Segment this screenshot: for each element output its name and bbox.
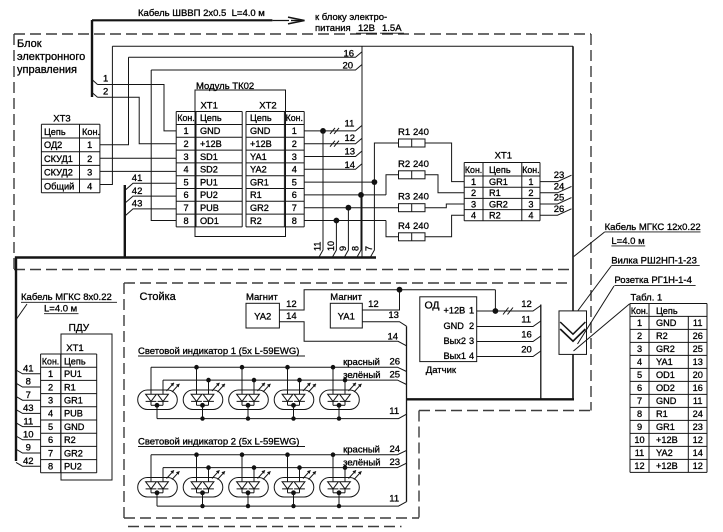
junction: LED 4 green to bus [297, 378, 302, 383]
LED 2 red anode riser [196, 455, 198, 482]
svg-text:8: 8 [26, 377, 31, 388]
R4 left lead [386, 221, 399, 237]
svg-text:4: 4 [87, 181, 92, 191]
LED 2 red anode riser [196, 367, 198, 394]
svg-text:R1: R1 [64, 382, 76, 392]
svg-text:R3: R3 [398, 192, 410, 203]
LED 5 cathode drop [338, 405, 340, 418]
svg-text:8: 8 [637, 409, 642, 419]
svg-text:11: 11 [389, 406, 399, 417]
svg-text:11: 11 [693, 396, 703, 406]
svg-text:10: 10 [634, 435, 644, 445]
LED 1 red anode riser [150, 367, 152, 394]
twisted pair mark on sensor +12V wire [503, 308, 509, 315]
svg-text:+12В: +12В [250, 139, 272, 149]
LED 2 green diode symbol [203, 482, 214, 489]
svg-text:25: 25 [554, 193, 565, 204]
connector table XT3 grid [41, 123, 100, 125]
svg-text:XT3: XT3 [53, 114, 70, 125]
LED 5 emission arrows [349, 470, 362, 479]
svg-text:13: 13 [693, 357, 703, 367]
LED 5 green anode riser [344, 380, 346, 394]
PDU wire 43 from cable bus [16, 410, 41, 414]
svg-text:12: 12 [286, 299, 297, 310]
svg-text:23: 23 [554, 170, 565, 181]
LED 5 green diode symbol [340, 482, 351, 489]
R2 left lead [386, 175, 399, 195]
LED 1 green diode symbol [158, 394, 169, 401]
PDU wire 9 from cable bus [16, 449, 41, 453]
LED 1 green anode riser [162, 380, 164, 394]
svg-text:R2: R2 [250, 216, 262, 226]
sensor cable mini-bundle vertical [540, 305, 542, 400]
svg-text:Световой индикатор 1 (5x L-59E: Световой индикатор 1 (5x L-59EWG) [138, 346, 299, 357]
LED 4 green diode symbol [294, 394, 305, 401]
magnet YA2 box [246, 303, 279, 328]
svg-text:3: 3 [471, 199, 476, 209]
PDU wire 10 from cable bus [16, 436, 41, 440]
svg-text:24: 24 [554, 181, 565, 192]
PDU wire 7 from cable bus [16, 396, 41, 400]
arrow to power supply [273, 20, 290, 22]
svg-text:7: 7 [183, 203, 188, 213]
LED 5 red diode symbol [328, 394, 339, 401]
svg-text:11: 11 [389, 494, 399, 505]
svg-text:R2: R2 [398, 159, 410, 170]
svg-text:GR2: GR2 [250, 203, 269, 213]
svg-text:PU1: PU1 [200, 177, 218, 187]
LED 1 cathode join [151, 404, 163, 406]
svg-text:3: 3 [183, 152, 188, 162]
svg-text:Кабель МГКС 8x0.22: Кабель МГКС 8x0.22 [21, 292, 112, 303]
svg-text:R2: R2 [489, 211, 501, 221]
svg-text:Кон.: Кон. [522, 165, 539, 175]
LED 3 red anode riser [241, 367, 243, 394]
svg-text:Вых1: Вых1 [444, 351, 466, 361]
LED 4 green diode symbol [294, 482, 305, 489]
svg-text:6: 6 [183, 190, 188, 200]
junction: LED 2 green to bus [206, 465, 211, 470]
LED 3 cathode join [242, 492, 254, 494]
wire from XT2 pin 5 GR1 to R1 [304, 181, 374, 183]
sensor wire 12 to cable bundle [477, 306, 541, 312]
plug RSh2NP-1-23 chevron [560, 322, 585, 334]
svg-text:GR1: GR1 [250, 177, 269, 187]
LED 2 green anode riser [208, 468, 210, 482]
LED green bus wire 23 [163, 463, 407, 467]
svg-text:8: 8 [183, 216, 188, 226]
dashed boundary: electronic control unit box top edge [14, 33, 591, 35]
LED 3 cathode join [242, 404, 254, 406]
LED 2 emission arrows [212, 383, 225, 392]
svg-text:8: 8 [48, 462, 53, 472]
svg-text:R4: R4 [398, 221, 410, 232]
svg-text:23: 23 [693, 422, 703, 432]
LED 4 cathode join [288, 404, 300, 406]
svg-text:Цепь: Цепь [656, 306, 678, 316]
svg-text:14: 14 [388, 331, 399, 342]
wire 12 from YA1 pin 1 [362, 290, 399, 310]
svg-text:12: 12 [345, 133, 356, 144]
svg-text:3: 3 [469, 336, 474, 346]
svg-text:Вилка РШ2НП-1-23: Вилка РШ2НП-1-23 [611, 255, 697, 266]
svg-text:PU2: PU2 [200, 190, 218, 200]
svg-text:Кон.: Кон. [286, 113, 303, 123]
svg-text:6: 6 [48, 435, 53, 445]
svg-text:GND: GND [200, 126, 221, 136]
svg-text:YA2: YA2 [656, 448, 673, 458]
svg-text:5: 5 [48, 422, 53, 432]
svg-text:GND: GND [444, 321, 465, 331]
svg-text:Кон.: Кон. [42, 357, 59, 367]
LED 4 red anode riser [287, 455, 289, 482]
LED 2 green anode riser [208, 380, 210, 394]
LED common bus wire 11 [157, 414, 407, 418]
top rail run to cable (net Obschiy) [112, 45, 573, 47]
svg-text:6: 6 [292, 190, 297, 200]
bicolor LED 5 outline [320, 478, 360, 498]
svg-text:XT1: XT1 [200, 100, 217, 111]
svg-text:Общий: Общий [44, 181, 74, 191]
LED 1 emission arrows [167, 383, 180, 392]
LED 1 red anode riser [150, 455, 152, 482]
vertical wire 10 down to PDU cable bus [332, 221, 336, 258]
svg-text:5: 5 [183, 177, 188, 187]
svg-text:16: 16 [693, 383, 703, 393]
rack side cable bundle vertical [406, 326, 408, 502]
svg-text:2: 2 [469, 321, 474, 331]
LED 1 green anode riser [162, 468, 164, 482]
PDU wire 42 from cable bus [16, 462, 41, 466]
junction: LED 3 green to bus [252, 378, 257, 383]
wire 43 from module XT1 pin 7 PUB [125, 209, 176, 216]
svg-text:12В: 12В [358, 23, 375, 34]
svg-text:2: 2 [183, 139, 188, 149]
sensor wire 20 to cable bundle [477, 351, 541, 357]
svg-text:Кон.: Кон. [177, 113, 194, 123]
wire 25 from output XT1 to cable bundle [540, 198, 572, 204]
wire 12 drop to sensor +12V [494, 290, 496, 311]
wire 13 from module XT2 pin 3 YA1 [304, 151, 362, 157]
svg-text:GND: GND [656, 396, 677, 406]
dashed boundary: electronic control unit box bottom-left edge [14, 269, 570, 271]
junction: LED 4 green to bus [297, 465, 302, 470]
PDU wire 41 from cable bus [16, 370, 41, 374]
svg-text:11: 11 [693, 318, 703, 328]
svg-text:управления: управления [17, 64, 77, 76]
PDU outline box [61, 334, 112, 480]
svg-text:Кабель МГКС 12x0.22: Кабель МГКС 12x0.22 [605, 222, 701, 233]
junction: LED 3 red to bus [240, 365, 245, 370]
svg-text:ОД: ОД [425, 300, 440, 312]
svg-text:5: 5 [637, 370, 642, 380]
svg-text:5: 5 [292, 177, 297, 187]
svg-text:1: 1 [637, 318, 642, 328]
svg-text:4: 4 [183, 165, 188, 175]
svg-text:зелёный: зелёный [343, 457, 380, 468]
svg-text:42: 42 [23, 456, 34, 467]
svg-text:41: 41 [132, 173, 143, 184]
LED 4 cathode drop [293, 493, 295, 506]
sensor OD box [420, 297, 477, 362]
bicolor LED 1 outline [138, 390, 178, 410]
sensor wire 11 to cable bundle [477, 321, 541, 327]
LED green bus wire 25 [163, 380, 407, 384]
svg-text:YA2: YA2 [250, 165, 267, 175]
junction: LED 2 cathode to bus [200, 416, 204, 420]
svg-text:4: 4 [637, 357, 642, 367]
svg-text:11: 11 [23, 416, 33, 427]
LED 1 emission arrows [167, 470, 180, 479]
svg-text:12: 12 [693, 435, 703, 445]
cable MGKS 12x0.22 right vertical run upper [572, 46, 574, 311]
junction: LED 5 cathode to bus [337, 416, 341, 420]
wire 24 from output XT1 to cable bundle [540, 186, 572, 192]
svg-text:YA1: YA1 [656, 357, 673, 367]
junction: wire 11 to vertical 11 [320, 128, 326, 134]
svg-text:L=4.0 м: L=4.0 м [611, 236, 644, 247]
wire from XT2 pin 8 R2 to R4 [304, 220, 386, 222]
junction: LED 5 cathode to bus [337, 504, 341, 508]
svg-text:PU2: PU2 [64, 462, 82, 472]
LED red bus wire 26 [151, 367, 407, 371]
svg-text:Магнит: Магнит [246, 292, 278, 303]
svg-text:Стойка: Стойка [140, 291, 177, 303]
svg-text:2: 2 [528, 188, 533, 198]
svg-text:23: 23 [390, 457, 401, 468]
svg-text:GR1: GR1 [489, 177, 508, 187]
svg-text:9: 9 [26, 443, 31, 454]
junction: GR2 wire / vertical 9 [346, 205, 352, 211]
svg-text:3: 3 [528, 199, 533, 209]
svg-text:СКУД2: СКУД2 [44, 168, 73, 178]
svg-text:красный: красный [343, 357, 380, 368]
svg-text:2: 2 [87, 154, 92, 164]
net OD2 / wire 16 run from XT3 pin 1 [100, 57, 129, 144]
LED 4 red anode riser [287, 367, 289, 394]
svg-text:зелёный: зелёный [343, 370, 380, 381]
svg-text:2: 2 [637, 331, 642, 341]
svg-text:240: 240 [413, 127, 429, 138]
LED 2 cathode join [197, 404, 209, 406]
svg-text:GR2: GR2 [64, 448, 83, 458]
svg-text:2: 2 [471, 188, 476, 198]
junction: LED 3 cathode to bus [246, 504, 250, 508]
LED 1 red diode symbol [146, 394, 157, 401]
svg-text:16: 16 [344, 48, 355, 59]
LED 5 green anode riser [344, 468, 346, 482]
cable MGKS 12x0.22 right vertical run lower [572, 354, 574, 399]
svg-text:26: 26 [390, 357, 401, 368]
svg-text:10: 10 [23, 430, 34, 441]
junction: LED 3 red to bus [240, 452, 245, 457]
junction: R2 wire / vertical 10 [334, 218, 340, 224]
svg-text:7: 7 [48, 448, 53, 458]
R1 right lead to XT1 pin 1 [425, 143, 464, 182]
svg-text:14: 14 [345, 160, 356, 171]
svg-text:240: 240 [413, 159, 429, 170]
svg-text:7: 7 [26, 390, 31, 401]
module TK02 outline box [195, 90, 286, 237]
junction: LED 5 green to bus [343, 465, 348, 470]
wire 41 from module XT1 pin 5 PU1 [125, 183, 176, 190]
svg-text:1: 1 [528, 177, 533, 187]
LED 1 cathode join [151, 492, 163, 494]
LED 2 green diode symbol [203, 394, 214, 401]
resistor R1 240 [399, 139, 426, 147]
svg-text:+12В: +12В [200, 139, 222, 149]
LED 3 green anode riser [253, 468, 255, 482]
net OD1 riser from module XT1 pin 8 [151, 70, 176, 221]
svg-text:Цепь: Цепь [44, 127, 66, 137]
svg-text:GR1: GR1 [64, 396, 83, 406]
cable MGKS 8x0.22 thick bus vertical [15, 257, 17, 462]
svg-text:R1: R1 [398, 127, 410, 138]
svg-text:YA1: YA1 [338, 312, 355, 323]
svg-text:20: 20 [693, 370, 703, 380]
LED 1 red diode symbol [146, 482, 157, 489]
svg-text:к блоку электро-: к блоку электро- [315, 12, 387, 23]
svg-text:4: 4 [292, 165, 297, 175]
vertical wire 11 down to PDU cable bus [319, 131, 323, 258]
dashed boundary: electronic control unit box right edge [590, 34, 592, 411]
LED 2 cathode join [197, 492, 209, 494]
svg-text:11: 11 [345, 118, 355, 129]
svg-text:GND: GND [656, 318, 677, 328]
svg-text:OD2: OD2 [656, 383, 675, 393]
resistor R2 240 [399, 171, 426, 179]
dashed boundary: rack (Stoyka) box top edge [124, 282, 570, 284]
svg-text:25: 25 [390, 370, 401, 381]
wire 11 from module XT2 pin 1 GND [304, 125, 362, 130]
LED 3 red diode symbol [237, 394, 248, 401]
LED 5 cathode join [333, 492, 345, 494]
svg-text:4: 4 [528, 211, 533, 221]
svg-text:YA1: YA1 [250, 152, 267, 162]
LED 3 green anode riser [253, 380, 255, 394]
svg-text:Кон.: Кон. [82, 127, 100, 137]
magnet YA1 box [330, 303, 362, 328]
svg-text:OD1: OD1 [200, 216, 219, 226]
PDU connector XT1 grid [41, 353, 97, 355]
bundle of wires 41-43 down to PDU cable bus [124, 185, 126, 258]
svg-text:41: 41 [23, 364, 34, 375]
svg-text:43: 43 [132, 199, 143, 210]
svg-text:240: 240 [413, 192, 429, 203]
junction: LED 2 green to bus [206, 378, 211, 383]
bicolor LED 3 outline [229, 390, 269, 410]
junction: LED 2 cathode to bus [200, 504, 204, 508]
svg-text:26: 26 [693, 331, 703, 341]
bicolor LED 4 outline [274, 478, 314, 498]
twisted pair mark on wire 12 [330, 141, 335, 147]
wire 2 run to module XT1 pin 2 [98, 97, 177, 143]
LED 4 red diode symbol [282, 482, 293, 489]
R4 right lead to XT1 pin 4 [425, 215, 464, 237]
LED red bus wire 24 [151, 450, 407, 454]
svg-text:10: 10 [326, 241, 336, 251]
svg-text:14: 14 [286, 311, 297, 322]
svg-text:7: 7 [637, 396, 642, 406]
junction dot: +12V net above YA1 [397, 287, 403, 293]
wire 14 from module XT2 pin 4 YA2 [304, 164, 362, 170]
bicolor LED 2 outline [183, 390, 223, 410]
dashed boundary: rack box left edge [123, 283, 125, 518]
svg-text:1: 1 [103, 74, 108, 85]
dashed boundary: rack box bottom edge [124, 517, 419, 519]
svg-text:43: 43 [23, 403, 34, 414]
bicolor LED 4 outline [274, 390, 314, 410]
net Obschiy wire from XT3 pin 4 up to top rail [100, 46, 113, 184]
wire 42 from module XT1 pin 6 PU2 [125, 196, 176, 203]
wire 23 from output XT1 to cable bundle [540, 175, 572, 181]
junction: LED 5 red to bus [331, 365, 336, 370]
svg-text:9: 9 [338, 246, 348, 251]
svg-text:Розетка РГ1Н-1-4: Розетка РГ1Н-1-4 [614, 275, 691, 286]
svg-text:R2: R2 [64, 435, 76, 445]
svg-text:8: 8 [351, 246, 361, 251]
wire from XT2 pin 7 GR2 to R3 [304, 207, 398, 209]
wire 2 breakout tick [92, 93, 98, 98]
LED 1 cathode drop [156, 405, 158, 418]
leader from connector to table 1 [574, 304, 630, 351]
svg-text:Табл. 1: Табл. 1 [631, 293, 663, 304]
junction: LED 2 red to bus [194, 365, 199, 370]
svg-text:14: 14 [693, 448, 703, 458]
svg-text:Кон.: Кон. [631, 306, 648, 316]
dashed boundary: outer enclosure (cropped at image bottom) [128, 526, 402, 528]
svg-text:1: 1 [87, 140, 92, 150]
connector pair symbol box (plug and socket) [559, 311, 587, 355]
junction: LED 3 cathode to bus [246, 416, 250, 420]
LED 3 emission arrows [258, 383, 271, 392]
svg-text:Цепь: Цепь [64, 357, 86, 367]
wire 14 from YA2 pin 2 to cable bundle [279, 322, 406, 346]
svg-text:ПДУ: ПДУ [69, 323, 90, 334]
svg-text:12: 12 [521, 299, 532, 310]
svg-text:R1: R1 [250, 190, 262, 200]
svg-text:2: 2 [48, 382, 53, 392]
svg-text:24: 24 [693, 409, 703, 419]
LED 5 cathode join [333, 404, 345, 406]
LED 3 cathode drop [247, 405, 249, 418]
svg-text:1: 1 [48, 369, 53, 379]
dashed boundary: rack box right edge [418, 411, 420, 519]
LED 2 red diode symbol [191, 482, 202, 489]
wire from XT2 pin 6 R1 to R2 [304, 194, 386, 196]
svg-text:Кабель ШВВП 2x0.5 L=4.0 м: Кабель ШВВП 2x0.5 L=4.0 м [138, 8, 265, 19]
module connector XT2 grid [246, 111, 304, 113]
svg-text:2: 2 [292, 139, 297, 149]
junction: LED 4 cathode to bus [291, 504, 295, 508]
vertical wire 8 down to PDU cable bus [357, 195, 361, 258]
vertical wire 7 down to PDU cable bus [370, 182, 374, 257]
PDU wire 8 from cable bus [16, 383, 41, 387]
junction: GR1 wire / vertical 7 [372, 179, 378, 185]
svg-text:OD1: OD1 [656, 370, 675, 380]
junction: LED 4 red to bus [285, 365, 290, 370]
svg-text:4: 4 [471, 211, 476, 221]
svg-text:R1: R1 [489, 188, 501, 198]
svg-text:GND: GND [250, 126, 271, 136]
svg-text:25: 25 [693, 344, 703, 354]
svg-text:20: 20 [521, 345, 532, 356]
table 1 grid [630, 303, 707, 305]
svg-text:SD2: SD2 [200, 165, 218, 175]
cable ShVVP 2x0.5 horizontal run [92, 19, 272, 21]
LED common bus wire 11 [157, 502, 407, 506]
svg-text:7: 7 [292, 203, 297, 213]
